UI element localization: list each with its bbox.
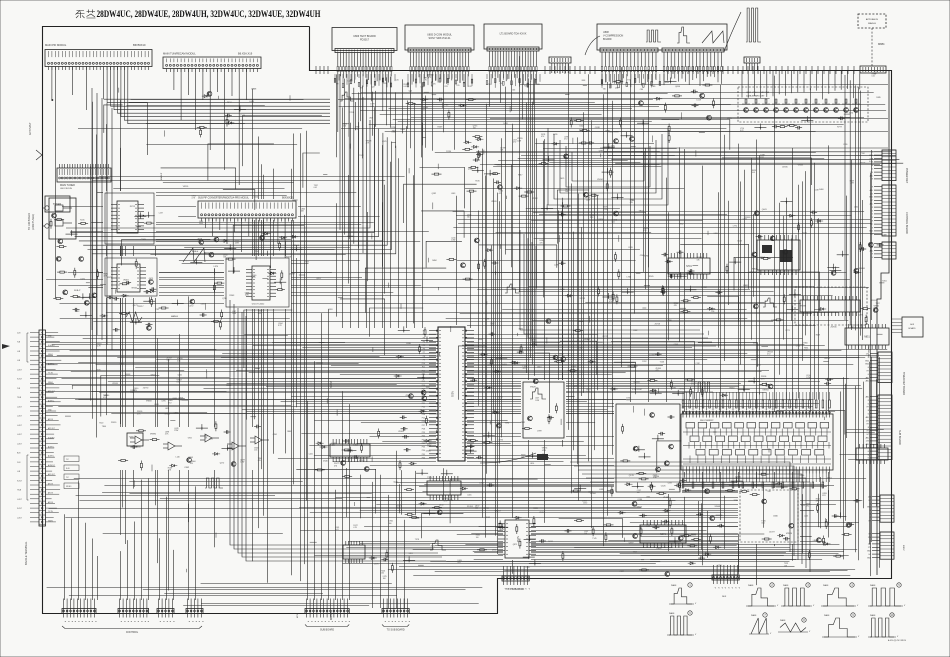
wire band mid upper: [457, 189, 727, 261]
waveform hdrive: [763, 298, 777, 307]
svg-text:C638: C638: [406, 343, 412, 345]
components right of compression: [691, 84, 733, 120]
svg-text:P: P: [162, 621, 164, 623]
waveform thumb 9: [822, 613, 860, 638]
svg-text:P: P: [188, 621, 190, 623]
components in AFC box: [750, 494, 794, 541]
waveform tuner agc: [183, 248, 205, 262]
waveform video: [340, 92, 354, 101]
svg-text:P: P: [91, 621, 93, 623]
wire bundle tuner loop: [66, 120, 396, 254]
title Toshiba logogram: [76, 10, 96, 19]
svg-text:TV-IN: TV-IN: [17, 397, 22, 399]
connector N901 bottom comb: [682, 467, 829, 489]
components above N901: [670, 378, 833, 398]
svg-text:P: P: [330, 621, 332, 623]
components below COMPRESSION: [609, 78, 682, 144]
svg-text:P: P: [313, 621, 315, 623]
svg-text:L999: L999: [537, 430, 542, 432]
boxed AV labels: [64, 456, 79, 489]
svg-text:ZD217: ZD217: [138, 306, 145, 308]
right components y240-300: [827, 242, 883, 275]
waveform thumb 10 trace: [870, 618, 894, 637]
waveform thumb 7 trace: [751, 618, 767, 634]
wire corner joins: [101, 102, 845, 572]
svg-text:MAIN TUN/RECAM MODUL: MAIN TUN/RECAM MODUL: [163, 52, 196, 56]
svg-text:U001 SU10N: U001 SU10N: [60, 188, 72, 190]
ic N451 LA7837: [498, 520, 536, 558]
ic N810 secam: [800, 296, 860, 316]
waveform thumb 6: [667, 611, 697, 636]
svg-text:P: P: [347, 621, 349, 623]
svg-text:P: P: [191, 621, 193, 623]
svg-text:MAIN-P: MAIN-P: [160, 172, 163, 180]
svg-text:L619: L619: [697, 100, 702, 102]
module LT1 BOARD header: [487, 47, 539, 51]
svg-text:C802: C802: [184, 467, 190, 469]
svg-text:BOARD: BOARD: [908, 327, 916, 330]
connector bottom P802: [118, 599, 149, 623]
svg-text:P: P: [94, 621, 96, 623]
svg-text:P: P: [727, 587, 729, 589]
svg-text:BOARD: BOARD: [603, 38, 612, 41]
ic N851: [845, 324, 889, 349]
tuner area components: [50, 213, 88, 261]
svg-text:R: R: [872, 187, 874, 189]
svg-text:P: P: [137, 621, 139, 623]
svg-text:TO 100 BOARD: TO 100 BOARD: [28, 213, 31, 230]
brace CONTROL: [62, 626, 202, 629]
components below N301: [404, 469, 494, 518]
waveform pulse mid: [505, 284, 519, 293]
wire band cross 1: [446, 273, 849, 326]
svg-text:P25: P25: [422, 418, 425, 420]
svg-text:P: P: [123, 621, 125, 623]
svg-text:Q342: Q342: [468, 168, 474, 170]
svg-text:M80Z: M80Z: [902, 545, 904, 551]
connector power det: [869, 150, 896, 181]
svg-text:L-OUT: L-OUT: [17, 443, 22, 445]
svg-text:TO POWER/DEF: TO POWER/DEF: [506, 588, 525, 591]
wire band cross 4 left: [76, 482, 372, 534]
svg-text:L-OUT: L-OUT: [17, 370, 22, 372]
svg-text:P: P: [165, 621, 167, 623]
left mid components B: [100, 259, 156, 332]
parts in N501 box: [268, 270, 286, 291]
svg-text:VIDEO: VIDEO: [48, 520, 54, 522]
component leg ticks noise: [65, 80, 884, 572]
left mid components A: [53, 268, 98, 318]
svg-text:V-OUT: V-OUT: [17, 508, 22, 510]
svg-text:D540: D540: [323, 460, 329, 462]
module U805 D-COM MODUL pins to bus: [410, 52, 469, 157]
svg-text:B6X56X19: B6X56X19: [133, 43, 146, 47]
center components row2: [553, 330, 665, 396]
svg-text:C20: C20: [396, 80, 399, 82]
opamp cluster U401: [127, 433, 269, 450]
connector bottom P804: [186, 599, 203, 623]
svg-text:P: P: [140, 621, 142, 623]
svg-text:R: R: [872, 179, 874, 181]
module U-box with waveform: [523, 382, 564, 438]
svg-text:T77: T77: [336, 84, 339, 86]
ic N960: [856, 444, 888, 464]
module AFC dashed box: [740, 490, 798, 542]
waveform thumb 6 trace: [669, 616, 692, 635]
module U805 D-COM MODUL box: [405, 25, 474, 50]
ic N471 deflection: [640, 520, 686, 548]
svg-text:Y/C: Y/C: [66, 459, 70, 461]
svg-text:28DW4UC, 28DW4UE, 28DW4UH, 32D: 28DW4UC, 28DW4UE, 28DW4UH, 32DW4UC, 32DW…: [97, 10, 322, 20]
waveform thumb 2 trace: [748, 588, 774, 606]
svg-text:AUDIO-L: AUDIO-L: [48, 455, 55, 458]
svg-text:S-VIDEO: S-VIDEO: [48, 437, 55, 439]
svg-text:L682: L682: [75, 311, 80, 313]
svg-text:P: P: [70, 621, 72, 623]
svg-text:P: P: [717, 587, 719, 589]
svg-text:R: R: [872, 227, 874, 229]
wire vband D: [337, 74, 426, 158]
svg-text:P: P: [341, 621, 343, 623]
pin labels left of N301: [422, 330, 425, 459]
svg-text:CONTROL BOARD: CONTROL BOARD: [905, 212, 908, 234]
module U806 TEXT BOARD pins to bus: [337, 53, 392, 137]
svg-text:Q971: Q971: [859, 315, 865, 317]
module MAIN-B remote box: [858, 14, 886, 28]
svg-text:AV2 OUT: AV2 OUT: [48, 427, 55, 430]
wire vband G2: [622, 67, 649, 367]
svg-text:L-OUT: L-OUT: [17, 499, 22, 501]
svg-text:C-IN: C-IN: [17, 462, 21, 464]
wire vband C: [247, 131, 307, 583]
wire curve into blob: [480, 453, 536, 463]
connector N901 top comb: [682, 392, 830, 418]
ic N701: [668, 253, 710, 279]
wire bundle right drop: [845, 75, 861, 336]
svg-text:Q57: Q57: [372, 86, 375, 88]
svg-text:C86: C86: [640, 89, 643, 91]
components around N901: [656, 473, 832, 499]
mid components B: [467, 146, 549, 198]
svg-text:P: P: [714, 587, 716, 589]
svg-text:P34: P34: [422, 450, 425, 452]
module deflection sub-board outline: [616, 404, 680, 492]
svg-text:HT: HT: [871, 224, 874, 226]
ic N601: [330, 439, 370, 462]
svg-text:P: P: [390, 621, 392, 623]
components below D-COM sparse: [406, 98, 476, 129]
waveform thumb 3 trace: [783, 588, 810, 606]
components in video chroma box: [754, 116, 845, 129]
waveform thumb 2: [746, 583, 779, 607]
svg-text:C840: C840: [773, 516, 779, 518]
svg-text:P: P: [344, 621, 346, 623]
ic N701 area: [660, 250, 728, 312]
wire right column mid: [852, 150, 872, 340]
svg-text:ABL: ABL: [866, 376, 869, 379]
annotation label noise: [97, 71, 887, 580]
svg-text:T205: T205: [80, 220, 85, 222]
bus stubs on top border: [316, 66, 854, 74]
pin stub components below top boards: [334, 74, 669, 93]
transistor cluster mid: [446, 238, 498, 280]
wire vband E: [479, 138, 502, 554]
waveform thumb 3: [781, 583, 815, 607]
svg-text:P: P: [407, 621, 409, 623]
wire bundle left drop: [92, 88, 112, 350]
svg-text:P32: P32: [422, 443, 425, 445]
svg-text:R844: R844: [136, 447, 142, 449]
svg-text:VR920: VR920: [786, 533, 793, 535]
svg-text:P28: P28: [422, 428, 425, 430]
connector P1 MAIN PIF MODUL: [45, 50, 152, 299]
wire vband B: [158, 268, 215, 590]
svg-text:N851: N851: [864, 337, 870, 339]
svg-text:L-OUT: L-OUT: [17, 434, 22, 436]
left strip group bracket B: [27, 455, 29, 500]
wire drops into U803: [742, 70, 860, 99]
wire vband A: [91, 102, 134, 544]
connector P-SRH: [549, 57, 571, 73]
svg-text:C572: C572: [189, 306, 195, 308]
connector right lower: [867, 495, 894, 522]
module VIDEO CHROMA dashed box: [738, 87, 868, 122]
module N901 sub-board outline: [681, 414, 833, 470]
waveform thumb 5: [868, 583, 906, 607]
wire band top left sparse: [78, 100, 304, 145]
wire bundle corner SE: [570, 462, 810, 572]
svg-text:SUB-P: SUB-P: [74, 290, 81, 292]
wire long verticals: [97, 76, 871, 585]
svg-text:P: P: [334, 621, 336, 623]
module N501 outline: [226, 258, 289, 307]
wire band bottom: [47, 584, 483, 606]
wire band cross 4: [299, 483, 836, 534]
module U808 header a: [600, 48, 658, 52]
svg-text:P: P: [401, 621, 403, 623]
svg-text:VR892: VR892: [150, 434, 157, 436]
svg-text:P33: P33: [422, 447, 425, 449]
svg-text:P: P: [731, 587, 733, 589]
svg-text:D685: D685: [426, 451, 432, 453]
svg-text:CONTROL: CONTROL: [126, 631, 139, 634]
svg-text:AV1 IN: AV1 IN: [48, 501, 54, 504]
wire verticals to bottom connectors: [65, 309, 405, 608]
connector MAIN TUNER header: [57, 164, 111, 182]
module LT1 BOARD pins to bus: [489, 51, 537, 119]
ic N901 internal blocks: [683, 423, 831, 465]
svg-text:Y/C: Y/C: [66, 477, 70, 479]
svg-text:ANT INPUT: ANT INPUT: [29, 122, 32, 135]
components in U-box: [528, 403, 558, 432]
svg-text:P: P: [337, 621, 339, 623]
ic N301 outline emphasis: [438, 327, 465, 461]
svg-text:P: P: [737, 587, 739, 589]
svg-text:PD3017: PD3017: [360, 39, 370, 42]
wire bundle mid drop: [340, 74, 363, 253]
svg-text:P: P: [307, 621, 309, 623]
svg-text:TIMER DET BOARD: TIMER DET BOARD: [902, 372, 905, 395]
svg-text:ABL: ABL: [866, 416, 869, 419]
svg-text:V-OUT: V-OUT: [17, 480, 22, 482]
components around N451: [477, 511, 546, 566]
waveform thumb 1 trace: [671, 588, 692, 604]
waveform tall top right: [746, 8, 761, 42]
wire nested loops: [548, 128, 668, 205]
deflection components: [632, 498, 724, 576]
svg-text:P: P: [720, 587, 722, 589]
svg-text:C-IN: C-IN: [17, 333, 21, 335]
connector BACK-E TERMINAL strip: [17, 330, 61, 526]
waveform in U-box: [530, 388, 546, 399]
svg-text:VR984: VR984: [762, 389, 769, 391]
wire band bottom right: [574, 485, 859, 560]
svg-text:R: R: [872, 217, 874, 219]
svg-text:ABL: ABL: [866, 396, 869, 399]
connector sub board: [866, 395, 892, 460]
svg-text:P24: P24: [422, 414, 425, 416]
module sub-board B outline: [105, 258, 157, 296]
svg-text:T46: T46: [603, 88, 606, 90]
svg-text:G03: G03: [910, 324, 915, 326]
svg-text:P: P: [327, 621, 329, 623]
connector control board: [865, 352, 892, 383]
svg-text:P: P: [169, 621, 171, 623]
components left of N501: [190, 252, 240, 297]
svg-text:L95: L95: [457, 85, 460, 87]
svg-text:L-IN: L-IN: [17, 360, 21, 362]
svg-text:BACK-E TERMINAL: BACK-E TERMINAL: [24, 541, 28, 565]
svg-text:P5: P5: [423, 345, 425, 347]
wire PIF staircase to center: [104, 99, 330, 124]
svg-text:Y-IN: Y-IN: [17, 388, 21, 390]
svg-text:P: P: [734, 587, 736, 589]
svg-text:P: P: [324, 621, 326, 623]
svg-text:DATA BOARD SET: DATA BOARD SET: [746, 95, 765, 98]
module U806 TEXT BOARD header: [335, 49, 394, 53]
wire bundle mid stair2: [520, 230, 716, 346]
wire PIF drop dot: [51, 99, 53, 101]
ic N202: [111, 264, 146, 292]
waveform sub-h: [205, 478, 223, 488]
components below TUN comb: [197, 88, 257, 137]
wire vband J: [841, 357, 880, 568]
svg-text:B6.X5A.X19: B6.X5A.X19: [238, 52, 253, 56]
svg-text:V-OUT: V-OUT: [17, 379, 22, 381]
svg-text:SUB BOARD: SUB BOARD: [898, 430, 901, 445]
svg-text:C526: C526: [661, 486, 667, 488]
border frame: [43, 27, 892, 614]
delay line filled blob: [537, 454, 548, 460]
waveform if curve: [126, 312, 142, 322]
svg-text:B: B: [872, 165, 874, 167]
svg-text:P: P: [67, 621, 69, 623]
svg-text:D70: D70: [469, 86, 472, 88]
wire top right runners: [490, 85, 888, 132]
connector TO POWER/DEF: [502, 566, 529, 590]
svg-text:L870: L870: [214, 266, 219, 268]
center components row: [546, 252, 654, 324]
svg-text:N901 TA8859P: N901 TA8859P: [700, 419, 714, 422]
svg-text:G: G: [872, 169, 874, 171]
ic N302 sub: [427, 476, 461, 500]
svg-text:HT: HT: [871, 200, 874, 202]
wire stubs from BACK-E strip: [45, 336, 397, 413]
svg-text:P: P: [77, 621, 79, 623]
connector bottom P803: [157, 599, 174, 623]
svg-text:P: P: [527, 588, 529, 590]
svg-text:MAIN-B: MAIN-B: [171, 315, 179, 318]
svg-text:GND: GND: [867, 551, 872, 553]
wire band cross 3: [278, 421, 614, 466]
svg-text:GND: GND: [865, 364, 870, 366]
svg-text:S-VIDEO: S-VIDEO: [48, 345, 55, 347]
transistor cluster Q301: [432, 136, 501, 176]
transistor chain in U803: [740, 99, 864, 118]
module U806 TEXT BOARD box: [332, 28, 397, 51]
svg-text:C66: C66: [512, 90, 515, 92]
svg-text:G: G: [872, 257, 874, 259]
left strip group bracket A: [27, 333, 29, 362]
waveform thumb 8 trace: [780, 623, 806, 632]
svg-text:M884: M884: [878, 42, 885, 46]
svg-text:Q694: Q694: [675, 86, 681, 88]
connector aux right: [870, 242, 896, 259]
antenna arrow: [36, 150, 42, 160]
wire MAIN-B drop: [871, 28, 873, 66]
svg-text:P: P: [404, 621, 406, 623]
svg-text:AUDIO-L: AUDIO-L: [48, 446, 55, 449]
svg-text:P: P: [724, 587, 726, 589]
svg-text:L-OUT: L-OUT: [17, 425, 22, 427]
svg-text:S-IN: S-IN: [66, 468, 70, 470]
wire band cross 5: [314, 542, 857, 576]
scan artifact left margin: [2, 344, 10, 349]
wire inner border bus right: [877, 70, 889, 575]
connector P886: [744, 57, 760, 71]
svg-text:T74: T74: [627, 80, 630, 82]
tuner module box: [43, 198, 77, 239]
module LT1 BOARD box: [484, 24, 542, 49]
svg-text:ZD906: ZD906: [831, 327, 838, 329]
svg-text:MAIN PIF MODUL: MAIN PIF MODUL: [45, 43, 67, 47]
svg-text:P: P: [126, 621, 128, 623]
svg-text:L966: L966: [627, 277, 632, 279]
svg-text:U501 TC4052: U501 TC4052: [252, 304, 265, 306]
svg-text:P: P: [74, 621, 76, 623]
svg-text:VIDEO: VIDEO: [48, 354, 54, 356]
svg-text:L-IN: L-IN: [17, 351, 21, 353]
wire band right upper: [476, 144, 676, 167]
svg-text:P: P: [81, 621, 83, 623]
svg-text:P: P: [159, 621, 161, 623]
svg-text:P10: P10: [422, 363, 425, 365]
svg-text:SONY SRX1742-01: SONY SRX1742-01: [428, 37, 451, 40]
svg-text:P: P: [133, 621, 135, 623]
svg-text:POWER DET: POWER DET: [905, 168, 908, 184]
svg-text:12V: 12V: [866, 441, 870, 443]
wire band left mid: [62, 177, 429, 264]
svg-text:P: P: [64, 621, 66, 623]
svg-text:P: P: [310, 621, 312, 623]
svg-text:APPLIANCE: APPLIANCE: [866, 18, 879, 21]
svg-text:P: P: [201, 621, 203, 623]
svg-text:VR40: VR40: [665, 82, 669, 84]
wire vband H: [669, 135, 760, 395]
connector TO SUB BOARD: [382, 599, 409, 632]
svg-text:P: P: [130, 621, 132, 623]
ic N481 sub: [343, 541, 365, 563]
